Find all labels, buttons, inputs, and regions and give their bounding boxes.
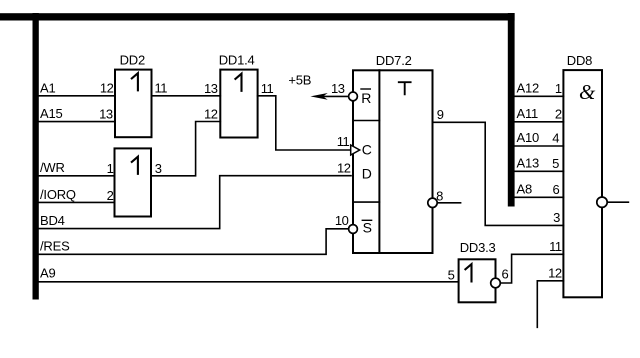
wire A10 to DD8 pin 4 (515, 145, 564, 147)
svg-text:3: 3 (553, 210, 560, 225)
svg-text:1: 1 (555, 81, 562, 96)
svg-text:DD1.4: DD1.4 (219, 53, 255, 68)
svg-text:5: 5 (552, 156, 559, 171)
wire A1 to DD2 pin 12 (39, 95, 115, 97)
wire A9 to DD3.3 pin 5 (39, 281, 459, 283)
wire A15 to DD2 pin 13 (39, 121, 115, 123)
wire DD3.3 pin 6 to DD8 pin 11 (500, 254, 563, 283)
svg-text:DD7.2: DD7.2 (376, 53, 412, 68)
svg-text:DD2: DD2 (120, 53, 145, 68)
svg-text:13: 13 (99, 107, 113, 122)
svg-text:A12: A12 (517, 81, 540, 96)
bus bar top (0, 13, 515, 20)
flip-flop DD7.2 (box) (353, 70, 433, 253)
svg-text:A11: A11 (517, 106, 539, 121)
bus bar left (33, 13, 39, 300)
output inversion bubble DD8 (597, 197, 607, 207)
divider control column DD7.2 (378, 70, 380, 253)
svg-text:&: & (579, 80, 596, 104)
svg-text:A9: A9 (40, 266, 56, 281)
svg-text:DD8: DD8 (567, 53, 592, 68)
svg-text:12: 12 (548, 265, 562, 280)
wire A12 to DD8 pin 1 (515, 95, 564, 97)
gate DD2 (OR element, box) (115, 70, 152, 138)
divider R section DD7.2 (353, 120, 379, 122)
wire /IORQ to DD2.1 pin 2 (39, 201, 115, 203)
svg-text:A15: A15 (40, 106, 63, 121)
value label 1 of DD3.3 (465, 264, 471, 281)
svg-text:11: 11 (261, 81, 274, 96)
svg-text:S: S (363, 220, 372, 236)
wire DD8 output stub (607, 201, 628, 203)
pin 13 DD7.2 inversion bubble (R input) (349, 92, 358, 101)
svg-text:11: 11 (549, 239, 562, 254)
wire DD8 pin 12 dangling (537, 281, 563, 328)
wire DD2.1 pin 3 to DD1.4 pin 12 (151, 122, 220, 176)
pin 11 DD7.2 dynamic C input triangle (351, 145, 360, 155)
svg-text:10: 10 (335, 213, 349, 228)
svg-text:6: 6 (502, 266, 509, 281)
svg-text:R: R (361, 90, 371, 106)
pin 10 DD7.2 inversion bubble (S input) (349, 225, 358, 234)
power +5B arrow (310, 93, 327, 100)
divider S section DD7.2 (353, 201, 379, 203)
and gate DD8 (box) (563, 70, 602, 297)
svg-text:5: 5 (448, 268, 455, 283)
value label 1 of DD2 (132, 73, 138, 90)
svg-text:1: 1 (107, 161, 114, 176)
value label T (399, 82, 411, 94)
gate DD2.1 (lower OR element, box) (115, 148, 152, 216)
svg-text:/RES: /RES (40, 239, 70, 254)
svg-text:2: 2 (107, 188, 114, 203)
wire DD7.2 pin 8 stub (437, 202, 460, 204)
svg-text:A13: A13 (517, 156, 540, 171)
svg-text:BD4: BD4 (40, 213, 65, 228)
gate DD1.4 (OR element, box) (220, 70, 257, 138)
svg-text:+5B: +5B (288, 73, 311, 88)
svg-text:11: 11 (155, 80, 168, 95)
svg-text:4: 4 (552, 131, 559, 146)
pin 8 DD7.2 inversion bubble (inverse output) (428, 198, 437, 207)
wire DD1.4 pin 11 to DD7.2 C input (258, 96, 351, 150)
svg-text:9: 9 (437, 107, 444, 122)
svg-text:13: 13 (331, 81, 345, 96)
wire +5B to DD7.2 pin 13 (323, 95, 349, 97)
svg-text:A10: A10 (517, 130, 540, 145)
wire A13 to DD8 pin 5 (515, 170, 564, 172)
svg-text:D: D (362, 166, 372, 182)
svg-text:C: C (362, 142, 372, 158)
value label 1 of DD1.4 (235, 74, 241, 91)
svg-text:8: 8 (436, 188, 443, 203)
svg-text:3: 3 (155, 161, 162, 176)
svg-text:/WR: /WR (40, 160, 65, 175)
gate DD3.3 (inverter, box) (459, 259, 496, 302)
svg-text:A1: A1 (40, 80, 56, 95)
wire DD7.2 pin 9 to DD8 pin 3 (433, 122, 564, 225)
svg-text:12: 12 (204, 107, 218, 122)
svg-text:A8: A8 (517, 182, 533, 197)
svg-text:6: 6 (552, 182, 559, 197)
wire A11 to DD8 pin 2 (515, 121, 564, 123)
bus bar right (508, 13, 515, 207)
svg-text:12: 12 (100, 80, 114, 95)
value label 1 of DD2.1 (132, 157, 138, 174)
svg-text:12: 12 (337, 160, 351, 175)
wire DD2 pin 11 to DD1.4 pin 13 (152, 95, 221, 97)
svg-text:2: 2 (555, 107, 562, 122)
svg-text:13: 13 (204, 81, 218, 96)
wire /RES to DD7.2 S input pin 10 (39, 229, 349, 255)
wire /WR to DD2.1 pin 1 (39, 175, 115, 177)
pin 6 DD3.3 inversion bubble (491, 278, 501, 288)
svg-text:DD3.3: DD3.3 (460, 240, 496, 255)
svg-text:11: 11 (337, 134, 350, 149)
wire BD4 to DD7.2 D input pin 12 (39, 176, 351, 229)
wire A8 to DD8 pin 6 (515, 196, 564, 198)
svg-text:/IORQ: /IORQ (40, 187, 76, 202)
